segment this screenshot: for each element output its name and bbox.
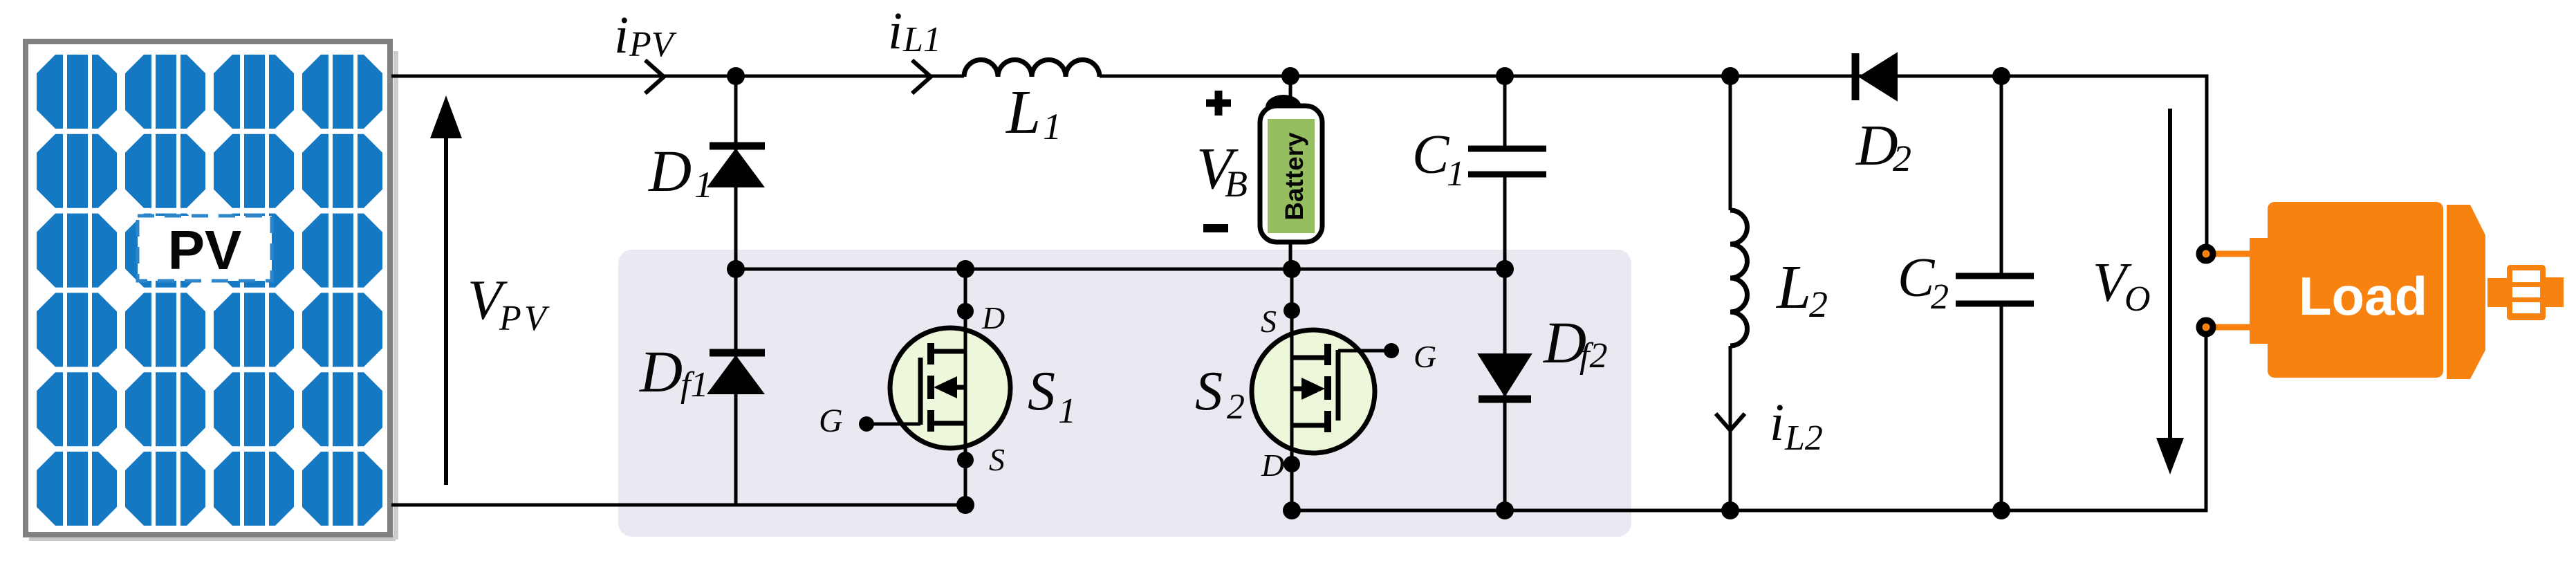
wire: top rail L1 to load xyxy=(1100,76,2207,254)
junction: C1 bottom / Df2 node xyxy=(1496,260,1514,278)
S2 gate wire xyxy=(1338,349,1391,353)
junction: C1 top node xyxy=(1496,67,1514,85)
diode D2 xyxy=(1855,53,1897,100)
svg-text:f2: f2 xyxy=(1579,336,1607,376)
svg-text:D: D xyxy=(1855,113,1898,178)
node S of S2 xyxy=(1284,302,1300,319)
svg-text:f1: f1 xyxy=(680,365,708,405)
wire: C1 branch upper xyxy=(1503,76,1507,149)
load terminal top xyxy=(2199,247,2213,261)
svg-text:i: i xyxy=(888,2,902,60)
label VB plus xyxy=(1206,91,1231,116)
svg-text:PV: PV xyxy=(629,25,677,64)
junction: Df2 bottom node xyxy=(1496,501,1514,519)
svg-text:O: O xyxy=(2124,279,2151,319)
load mount tab xyxy=(2250,238,2273,344)
junction: L2 top node xyxy=(1721,67,1739,85)
svg-text:V: V xyxy=(524,299,550,338)
inductor L1 xyxy=(964,59,1100,77)
svg-text:D: D xyxy=(639,338,683,405)
junction: battery bottom / S2 node xyxy=(1283,260,1301,278)
node S of S1 xyxy=(957,452,974,468)
svg-text:S: S xyxy=(989,442,1005,477)
label VB minus xyxy=(1203,224,1228,232)
svg-text:Battery: Battery xyxy=(1280,132,1308,221)
svg-text:S: S xyxy=(1028,361,1055,422)
wire: load terminal stub top xyxy=(2210,251,2252,257)
svg-text:C: C xyxy=(1898,248,1936,308)
S2 gate dot xyxy=(1384,343,1399,358)
PV cell array xyxy=(37,55,382,526)
svg-text:2: 2 xyxy=(1227,387,1245,427)
svg-text:L1: L1 xyxy=(902,20,941,59)
junction: C2 top node xyxy=(1992,67,2010,85)
load coupler xyxy=(2507,265,2546,320)
wire: battery branch xyxy=(1289,76,1292,111)
svg-text:S: S xyxy=(1261,304,1277,339)
node D of S1 xyxy=(957,303,974,320)
svg-text:G: G xyxy=(819,403,843,439)
svg-text:1: 1 xyxy=(1043,106,1062,147)
svg-text:1: 1 xyxy=(1447,154,1465,194)
wire: bottom left rail xyxy=(391,504,965,507)
wire: D1 Df1 branch xyxy=(734,76,738,505)
wire: purple network top rail xyxy=(736,268,1505,271)
MOSFET S1 body xyxy=(890,328,1010,448)
load coupler tab xyxy=(2545,277,2564,307)
wire: load terminal stub bottom xyxy=(2210,324,2252,331)
junction: battery top node xyxy=(1281,67,1299,85)
svg-text:2: 2 xyxy=(1893,138,1911,179)
svg-text:1: 1 xyxy=(1058,391,1076,431)
svg-text:C: C xyxy=(1412,124,1450,185)
S2 source-drain vertical wire xyxy=(1290,269,1294,510)
svg-text:L: L xyxy=(1005,78,1041,147)
svg-text:D: D xyxy=(648,138,692,204)
S1 gate wire xyxy=(867,423,920,426)
wire: C2 branch lower xyxy=(2000,304,2003,510)
svg-text:L2: L2 xyxy=(1784,418,1823,458)
junction: S2 drain bottom node xyxy=(1283,501,1301,519)
svg-text:P: P xyxy=(499,299,521,338)
S1 internal symbol xyxy=(920,343,966,432)
S2 internal symbol xyxy=(1292,344,1338,432)
load shaft xyxy=(2487,278,2508,307)
load right cap xyxy=(2447,205,2485,379)
junction: Df1 / D1 node xyxy=(727,260,745,278)
VPV arrow xyxy=(444,131,448,485)
svg-text:PV: PV xyxy=(168,219,242,281)
svg-text:D: D xyxy=(1261,448,1284,483)
current arrow iPV xyxy=(645,60,664,93)
svg-text:B: B xyxy=(1225,163,1248,205)
svg-text:1: 1 xyxy=(694,164,713,205)
capacitor C2 xyxy=(1956,276,2034,304)
PV panel frame xyxy=(26,41,398,541)
junction: D1 top node xyxy=(727,67,745,85)
wire: top rail PV to L1 xyxy=(391,75,964,78)
junction: S1 drain branch node xyxy=(956,260,974,278)
junction: L2 bottom node xyxy=(1721,501,1739,519)
inductor L2 xyxy=(1729,76,1732,210)
S1 gate dot xyxy=(859,416,874,432)
battery green core xyxy=(1268,119,1315,233)
diode Df2 xyxy=(1479,354,1531,399)
svg-text:G: G xyxy=(1414,339,1436,374)
PV label box xyxy=(138,216,272,281)
current arrow iL2 xyxy=(1716,414,1745,430)
switching network highlight box xyxy=(618,250,1631,537)
svg-text:S: S xyxy=(1195,361,1223,422)
svg-text:2: 2 xyxy=(1931,277,1949,317)
battery body xyxy=(1260,106,1322,242)
svg-text:i: i xyxy=(614,6,629,64)
battery cap xyxy=(1266,95,1301,107)
capacitor C1 xyxy=(1468,149,1546,174)
wire: bottom right rail xyxy=(1292,328,2206,510)
wire battery to rail xyxy=(1289,240,1292,269)
load terminal bottom xyxy=(2199,320,2213,334)
current arrow iL1 xyxy=(912,60,931,93)
diode D1 xyxy=(708,146,765,187)
svg-text:i: i xyxy=(1770,394,1784,452)
node D of S2 xyxy=(1284,456,1300,472)
svg-text:Load: Load xyxy=(2299,266,2427,326)
svg-text:D: D xyxy=(981,300,1005,335)
junction: S1 source bottom node xyxy=(956,496,974,514)
wire: C1 to Df2 branch lower xyxy=(1503,174,1507,510)
svg-text:2: 2 xyxy=(1809,284,1828,325)
junction: C2 bottom node xyxy=(1992,501,2010,519)
diode Df1 xyxy=(708,353,765,394)
S1 drain-source vertical wire xyxy=(964,269,967,505)
VO arrow xyxy=(2168,109,2172,443)
load main body xyxy=(2268,202,2443,378)
svg-text:L: L xyxy=(1775,253,1811,322)
MOSFET S2 body xyxy=(1252,330,1375,453)
wire: C2 branch upper xyxy=(2000,76,2003,276)
